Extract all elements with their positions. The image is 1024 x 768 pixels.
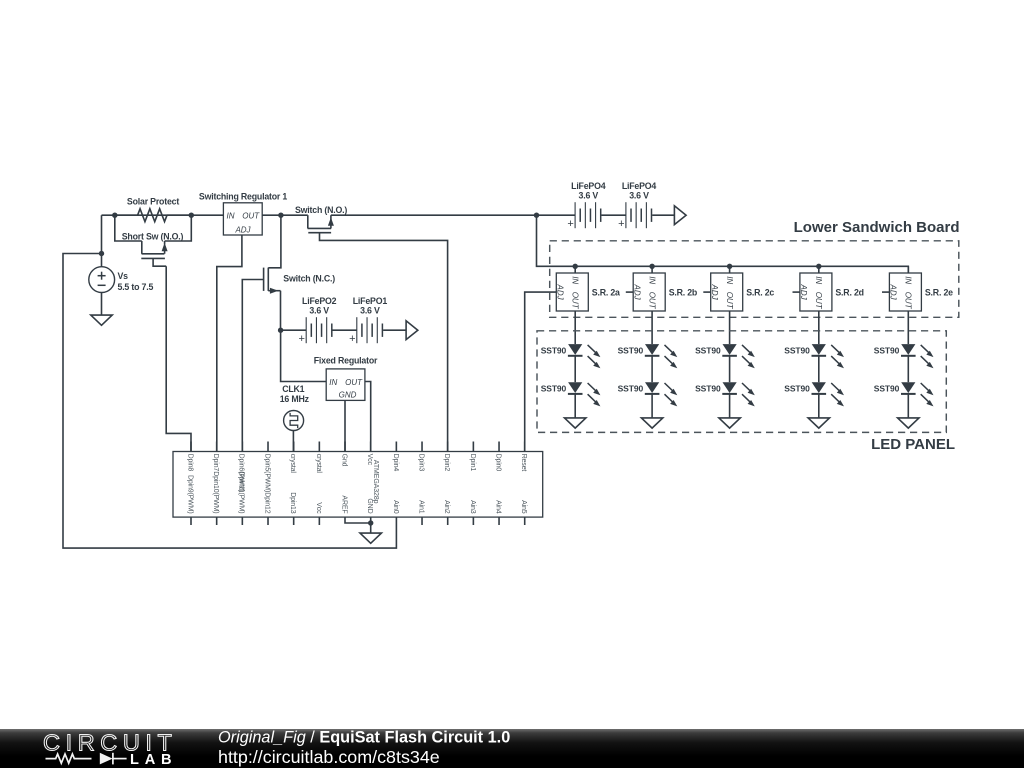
pin Dpin8 (top) [190, 442, 192, 452]
node: battery junction [278, 328, 283, 333]
svg-text:3.6 V: 3.6 V [309, 306, 329, 316]
wire [651, 394, 653, 418]
svg-text:SST90: SST90 [874, 383, 900, 393]
svg-text:+: + [349, 333, 355, 345]
svg-text:ADJ: ADJ [799, 284, 808, 301]
svg-text:Vcc: Vcc [366, 454, 373, 466]
net flag arrow (batteries 1-2) [406, 321, 418, 340]
svg-text:Dpin13: Dpin13 [289, 492, 296, 514]
node: bus junction S.R. 2c [727, 264, 732, 269]
pin Ain1 (bottom) [421, 517, 423, 525]
svg-text:Switch (N.C.): Switch (N.C.) [283, 274, 335, 284]
svg-text:5.5 to 7.5: 5.5 to 7.5 [118, 282, 154, 292]
svg-text:ADJ: ADJ [889, 284, 898, 301]
svg-text:SST90: SST90 [695, 383, 721, 393]
wire: IN stub S.R. 2a [574, 266, 576, 273]
node: junction rail to Switch N.C. drain [278, 213, 283, 218]
pin Dpin2 (top) [447, 442, 449, 452]
pin Ain3 (bottom) [472, 517, 474, 525]
node: bus junction S.R. 2b [649, 264, 654, 269]
svg-text:Dpin1: Dpin1 [469, 454, 476, 472]
svg-text:3.6 V: 3.6 V [360, 306, 380, 316]
ground (column 2c) [719, 418, 740, 428]
svg-text:ADJ: ADJ [234, 226, 251, 235]
ground under MCU [360, 533, 381, 543]
svg-text:SST90: SST90 [541, 345, 567, 355]
wire: Switch N.C. drain from rail [268, 215, 281, 268]
svg-text:OUT: OUT [904, 292, 913, 310]
svg-text:Ain1: Ain1 [417, 500, 424, 514]
pin Reset (top) [524, 442, 526, 452]
svg-text:IN: IN [648, 276, 657, 284]
wire: OUT S.R. 2d to LED string [818, 311, 820, 344]
svg-text:Gnd: Gnd [340, 454, 347, 467]
wire [729, 394, 731, 418]
svg-text:crystal: crystal [289, 454, 296, 474]
pin Ain4 (bottom) [498, 517, 500, 525]
svg-text:S.R. 2a: S.R. 2a [592, 288, 620, 298]
wire [574, 394, 576, 418]
wire: main top rail left segment [102, 214, 308, 216]
wire: CLK1 to crystal pin [292, 431, 294, 452]
ground (column 2e) [898, 418, 919, 428]
pin Dpin5(PWM) (top) [267, 442, 269, 452]
svg-text:Dpin10(PWM): Dpin10(PWM) [212, 471, 219, 513]
svg-text:OUT: OUT [242, 211, 260, 220]
svg-text:LiFePO4: LiFePO4 [622, 181, 657, 191]
voltage source Vs [89, 267, 115, 293]
svg-text:IN: IN [571, 276, 580, 284]
wire: source down to battery node [280, 291, 282, 331]
svg-text:IN: IN [329, 378, 337, 387]
svg-text:LED PANEL: LED PANEL [871, 436, 955, 453]
svg-text:ADJ: ADJ [710, 284, 719, 301]
wire: Switch (N.O.) gate to Dpin2 [320, 233, 448, 452]
svg-text:+: + [618, 218, 624, 230]
svg-text:SST90: SST90 [784, 383, 810, 393]
node: bus junction S.R. 2a [573, 264, 578, 269]
wire: Fixed Regulator GND to Gnd pin [344, 400, 346, 451]
wire: Short Sw branch left [115, 215, 142, 241]
svg-text:Reset: Reset [520, 454, 527, 472]
svg-text:LAB: LAB [130, 752, 177, 768]
svg-text:Ain0: Ain0 [392, 500, 399, 514]
pin crystal (top) [293, 442, 295, 452]
pin Dpin7 (top) [216, 442, 218, 452]
wire: S.R. 2a ADJ to Reset pin [525, 292, 557, 451]
wire: battery node to Fixed Regulator IN [281, 330, 327, 381]
wire: ADJ stub S.R. 2e [882, 291, 889, 293]
svg-text:OUT: OUT [571, 292, 580, 310]
svg-text:Dpin11(PWM): Dpin11(PWM) [238, 472, 245, 514]
node: AREF/GND junction [368, 520, 373, 525]
svg-text:Lower Sandwich Board: Lower Sandwich Board [794, 219, 960, 236]
pin Ain2 (bottom) [447, 517, 449, 525]
svg-text:SST90: SST90 [695, 345, 721, 355]
dashed region: Lower Sandwich Board [550, 241, 959, 317]
dashed region: LED PANEL [537, 331, 946, 433]
pin Gnd (top) [344, 442, 346, 452]
wire: Short Sw gate to Dpin8 [166, 266, 191, 451]
pin Vcc (bottom) [318, 517, 320, 525]
wire: down to S.R. IN bus [537, 215, 909, 273]
svg-text:Original_Fig / EquiSat Flash C: Original_Fig / EquiSat Flash Circuit 1.0 [218, 729, 510, 747]
svg-text:S.R. 2d: S.R. 2d [835, 288, 863, 298]
svg-text:OUT: OUT [814, 292, 823, 310]
svg-text:Dpin4: Dpin4 [392, 454, 399, 472]
wire: branch to left rail [63, 254, 396, 549]
svg-text:Dpin3: Dpin3 [417, 454, 424, 472]
svg-text:SST90: SST90 [618, 383, 644, 393]
pin Dpin0 (top) [498, 442, 500, 452]
svg-text:Solar Protect: Solar Protect [127, 196, 179, 206]
svg-text:Dpin12: Dpin12 [263, 492, 270, 514]
wire: Vs top lead [101, 215, 103, 267]
wire: IN stub S.R. 2d [818, 266, 820, 273]
svg-text:LiFePO4: LiFePO4 [571, 181, 606, 191]
wire [907, 394, 909, 418]
svg-text:Switch (N.O.): Switch (N.O.) [295, 205, 347, 215]
svg-text:Dpin5(PWM): Dpin5(PWM) [263, 454, 270, 493]
svg-text:Vs: Vs [118, 271, 129, 281]
svg-text:Dpin0: Dpin0 [494, 454, 501, 472]
IC U1 ATMEGA328p body [173, 452, 543, 518]
svg-text:Ain5: Ain5 [520, 500, 527, 514]
wire: main top rail right segment [331, 214, 576, 216]
wire: AREF to GND net [345, 517, 371, 523]
wire: ADJ of regulator 1 to Dpin7 [217, 235, 242, 452]
svg-text:S.R. 2b: S.R. 2b [669, 288, 698, 298]
pin Dpin1 (top) [472, 442, 474, 452]
pin crystal (top) [318, 442, 320, 452]
wire between batteries [333, 329, 357, 331]
svg-text:S.R. 2e: S.R. 2e [925, 288, 953, 298]
wire to flag [383, 329, 406, 331]
regulator box S.R. 2a [556, 273, 588, 311]
regulator box S.R. 2b [633, 273, 665, 311]
pin Dpin12 (bottom) [267, 517, 269, 525]
wire: ADJ stub S.R. 2d [793, 291, 800, 293]
svg-text:LiFePO1: LiFePO1 [353, 296, 388, 306]
svg-text:IN: IN [814, 276, 823, 284]
node: bus junction S.R. 2d [816, 264, 821, 269]
pin Dpin3 (top) [421, 442, 423, 452]
svg-text:OUT: OUT [648, 292, 657, 310]
svg-text:ADJ: ADJ [633, 284, 642, 301]
svg-text:+: + [298, 333, 304, 345]
svg-text:IN: IN [725, 276, 734, 284]
pin Dpin10(PWM) (bottom) [216, 517, 218, 525]
svg-text:3.6 V: 3.6 V [629, 191, 649, 201]
svg-text:ATMEGA328p: ATMEGA328p [372, 460, 379, 504]
svg-text:LiFePO2: LiFePO2 [302, 296, 337, 306]
svg-text:Dpin8: Dpin8 [186, 454, 193, 472]
regulator box S.R. 2c [711, 273, 743, 311]
pin GND bottom wire [370, 517, 372, 533]
pin Dpin11(PWM) (bottom) [241, 517, 243, 525]
wire [574, 356, 576, 383]
svg-text:Switching Regulator 1: Switching Regulator 1 [199, 192, 287, 202]
svg-text:SST90: SST90 [541, 383, 567, 393]
wire [907, 356, 909, 383]
pin Vcc (top) [370, 442, 372, 452]
pin Dpin6(PWM) (top) [241, 442, 243, 452]
svg-text:Dpin9(PWM): Dpin9(PWM) [186, 475, 193, 514]
wire: Switch N.C. gate to Dpin6 [242, 280, 263, 452]
svg-text:Ain2: Ain2 [443, 500, 450, 514]
svg-text:crystal: crystal [315, 454, 322, 474]
svg-text:Dpin2: Dpin2 [443, 454, 450, 472]
node: junction right of resistor [189, 213, 194, 218]
transistor Short Sw (N.O.) [141, 241, 143, 254]
pin Dpin9(PWM) (bottom) [190, 517, 192, 525]
wire: OUT S.R. 2e to LED string [907, 311, 909, 344]
ground (column 2a) [565, 418, 586, 428]
svg-text:+: + [567, 218, 573, 230]
wire: OUT S.R. 2c to LED string [729, 311, 731, 344]
ground under Vs [91, 315, 112, 325]
regulator box S.R. 2e [889, 273, 921, 311]
wire: Vs bottom lead [101, 292, 103, 315]
CircuitLab logo resistor-diode glyph [46, 754, 92, 763]
node: junction to battery + sandwich bus [534, 213, 539, 218]
svg-text:Dpin7: Dpin7 [212, 454, 219, 472]
svg-text:Short Sw (N.O.): Short Sw (N.O.) [122, 231, 184, 241]
svg-text:3.6 V: 3.6 V [579, 191, 599, 201]
svg-text:Ain4: Ain4 [494, 500, 501, 514]
wire: IN stub S.R. 2e [907, 266, 909, 273]
svg-text:OUT: OUT [345, 378, 363, 387]
wire: ADJ stub S.R. 2c [703, 291, 710, 293]
wire: IN stub S.R. 2c [729, 266, 731, 273]
wire to flag [652, 214, 674, 216]
svg-text:SST90: SST90 [784, 345, 810, 355]
ground (column 2d) [808, 418, 829, 428]
net flag arrow (LiFePO4 chain) [674, 206, 686, 225]
pin Ain5 (bottom) [524, 517, 526, 525]
wire: Fixed Regulator OUT to Vcc pin [365, 382, 371, 452]
svg-text:GND: GND [339, 390, 357, 399]
wire [729, 356, 731, 383]
wire [818, 394, 820, 418]
svg-text:IN: IN [904, 276, 913, 284]
svg-text:Fixed Regulator: Fixed Regulator [314, 355, 378, 365]
svg-text:16 MHz: 16 MHz [280, 394, 310, 404]
resistor Solar Protect [138, 209, 167, 222]
regulator box S.R. 2d [800, 273, 832, 311]
pin Dpin13 (bottom) [293, 517, 295, 525]
wire: OUT S.R. 2a to LED string [574, 311, 576, 344]
wire [651, 356, 653, 383]
svg-text:OUT: OUT [725, 292, 734, 310]
ground (column 2b) [641, 418, 662, 428]
wire: IN stub S.R. 2b [651, 266, 653, 273]
pin Dpin4 (top) [395, 442, 397, 452]
wire: ADJ stub S.R. 2b [626, 291, 633, 293]
svg-text:CLK1: CLK1 [282, 384, 304, 394]
wire [818, 356, 820, 383]
node: junction Vs branch [99, 251, 104, 256]
svg-text:SST90: SST90 [874, 345, 900, 355]
svg-text:SST90: SST90 [618, 345, 644, 355]
svg-text:Ain3: Ain3 [469, 500, 476, 514]
svg-text:S.R. 2c: S.R. 2c [746, 288, 774, 298]
svg-text:Vcc: Vcc [315, 502, 322, 514]
svg-text:GND: GND [366, 498, 373, 513]
wire: OUT S.R. 2b to LED string [651, 311, 653, 344]
svg-text:IN: IN [227, 211, 235, 220]
wire: Short Sw branch right [165, 215, 192, 241]
node: junction left of resistor [112, 213, 117, 218]
svg-text:ADJ: ADJ [556, 284, 565, 301]
svg-text:AREF: AREF [340, 495, 347, 513]
svg-text:http://circuitlab.com/c8ts34e: http://circuitlab.com/c8ts34e [218, 747, 440, 767]
wire between LiFePO4 batteries [601, 214, 626, 216]
